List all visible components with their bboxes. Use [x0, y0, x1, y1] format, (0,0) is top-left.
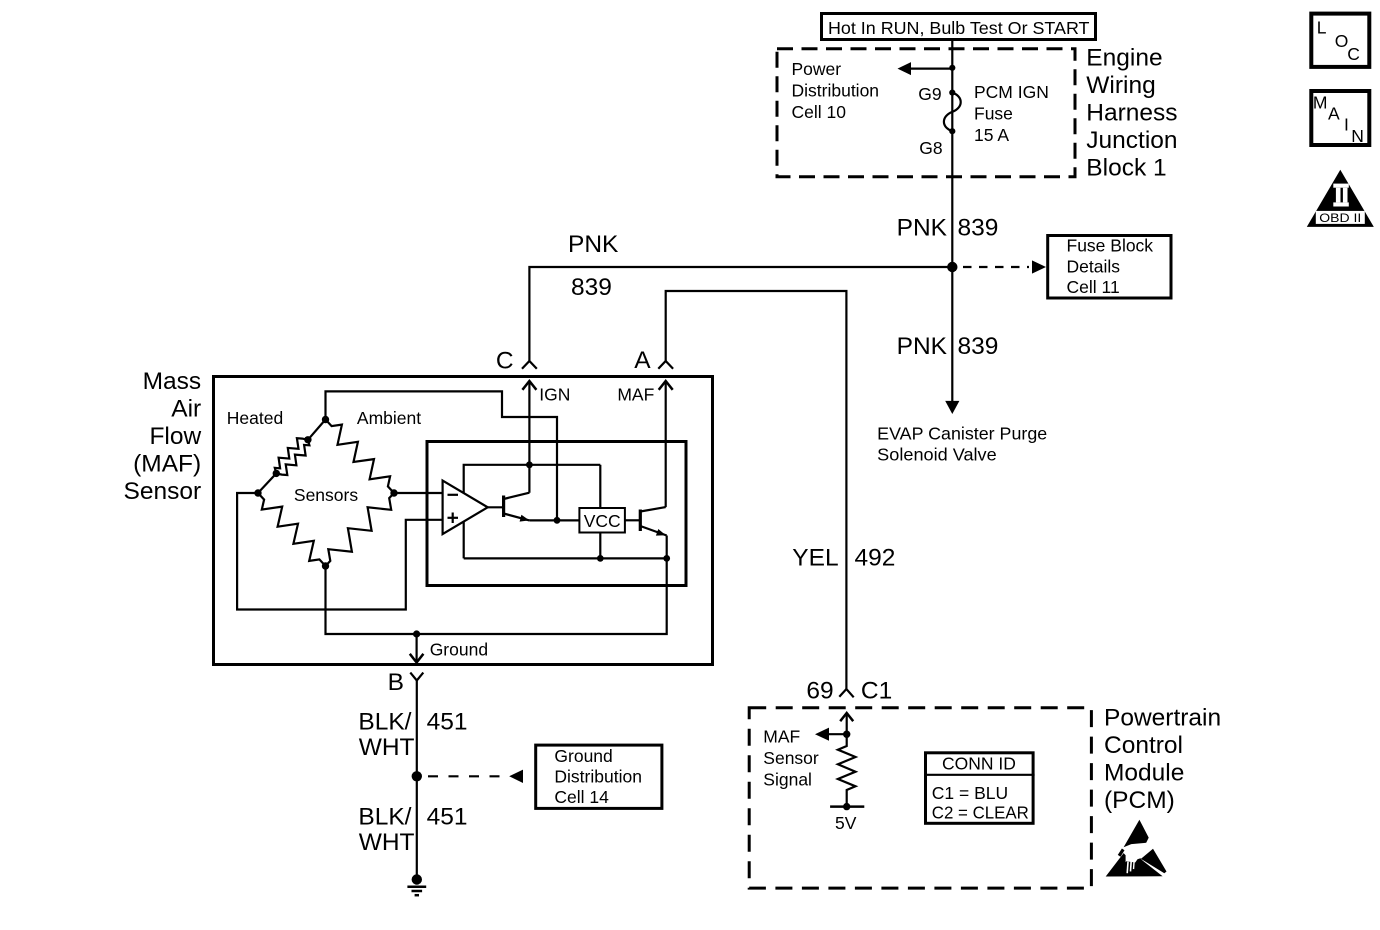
svg-text:5V: 5V: [835, 813, 857, 833]
op-amp U1 (comparator triangle): [443, 481, 488, 534]
svg-text:Signal: Signal: [763, 770, 812, 790]
svg-text:Sensor: Sensor: [763, 748, 819, 768]
wire: bridge bottom node to ground rail: [326, 558, 667, 634]
node: bridge left node dot: [254, 489, 261, 496]
svg-text:PNK: PNK: [897, 215, 948, 242]
svg-text:Block 1: Block 1: [1086, 155, 1166, 182]
svg-text:G8: G8: [919, 138, 942, 158]
svg-text:Wiring: Wiring: [1086, 72, 1155, 99]
svg-text:Fuse: Fuse: [974, 104, 1013, 124]
wire: ground arrow to pin B: [410, 634, 424, 663]
svg-text:Control: Control: [1104, 732, 1183, 759]
svg-text:N: N: [1351, 126, 1364, 146]
node: 5V supply terminal: [830, 803, 864, 833]
node: ESD sensitivity symbol: [1106, 820, 1167, 877]
node: EVAP Canister Purge Solenoid Valve label: [877, 424, 1047, 465]
node: Ground Distribution Cell 14 box: [536, 745, 662, 808]
transistor Q1 (NPN, heater drive): [488, 493, 580, 522]
svg-text:839: 839: [958, 215, 999, 242]
wire: PNK 839 down to EVAP Canister Purge Solenoid Valve (arrow): [945, 267, 959, 414]
svg-text:(MAF): (MAF): [133, 450, 201, 477]
svg-text:IGN: IGN: [539, 385, 570, 405]
svg-text:69: 69: [806, 678, 833, 705]
wire: bridge left node loop to op-amp non-inverting input: [237, 493, 443, 610]
svg-text:C1 = BLU: C1 = BLU: [932, 783, 1008, 803]
node: CONN ID table: [924, 753, 1035, 824]
svg-text:Distribution: Distribution: [792, 80, 880, 100]
svg-text:C2 = CLEAR: C2 = CLEAR: [932, 802, 1029, 822]
wire: VCC regulator to bottom rail: [599, 533, 601, 559]
svg-text:Distribution: Distribution: [554, 767, 642, 787]
wire: supply loop top rail and left side: [464, 465, 601, 559]
svg-text:Sensor: Sensor: [124, 478, 202, 505]
svg-text:WHT: WHT: [359, 734, 415, 761]
wire: bridge right node to op-amp inverting input: [394, 492, 443, 494]
svg-text:15 A: 15 A: [974, 125, 1009, 145]
node: PCM IGN Fuse 15 A label: [974, 82, 1049, 145]
resistor: heated sensor (double zigzag) top-left bridge arm: [258, 420, 326, 494]
svg-text:Cell 14: Cell 14: [554, 787, 609, 807]
transistor Q2 (NPN, output): [625, 507, 667, 558]
node: LOC reference box: [1311, 14, 1369, 67]
junction block 1 dashed box (Power Distribution Cell 10): [777, 49, 1075, 177]
wire: bridge top node to regulator input: [326, 391, 558, 520]
svg-text:CONN ID: CONN ID: [942, 754, 1016, 774]
svg-text:(PCM): (PCM): [1104, 787, 1175, 814]
svg-text:Engine: Engine: [1086, 45, 1162, 72]
svg-text:EVAP Canister Purge: EVAP Canister Purge: [877, 424, 1047, 444]
junction dot: ground distribution splice: [412, 771, 422, 781]
svg-text:VCC: VCC: [584, 511, 621, 531]
svg-text:C1: C1: [861, 678, 892, 705]
svg-text:I: I: [1344, 114, 1349, 134]
junction dot: IGN to supply rail: [526, 461, 533, 468]
connector A (MAF sensor pin A): [634, 347, 673, 374]
svg-text:Harness: Harness: [1086, 100, 1177, 127]
svg-text:L: L: [1317, 18, 1327, 38]
node: Hot In RUN, Bulb Test Or START power label box: [822, 14, 1096, 40]
svg-text:PNK: PNK: [568, 231, 619, 258]
junction dot: regulator input on emitter wire: [554, 517, 561, 524]
svg-text:Details: Details: [1067, 257, 1121, 277]
wire: IGN feed into sensor (arrow up to pin C): [522, 381, 570, 493]
svg-text:Hot In RUN, Bulb Test Or START: Hot In RUN, Bulb Test Or START: [828, 18, 1090, 38]
connector C (MAF sensor pin C): [496, 348, 537, 375]
svg-text:G9: G9: [918, 84, 941, 104]
svg-text:Ambient: Ambient: [357, 408, 421, 428]
svg-text:Air: Air: [171, 396, 201, 423]
svg-text:A: A: [634, 347, 651, 374]
resistor: bottom-right bridge arm zigzag: [326, 493, 395, 566]
wire: MAF signal into PCM (arrow up): [840, 713, 853, 734]
svg-text:OBD II: OBD II: [1319, 213, 1361, 225]
svg-text:Module: Module: [1104, 760, 1184, 787]
svg-text:Powertrain: Powertrain: [1104, 705, 1221, 732]
svg-text:BLK/: BLK/: [358, 804, 411, 831]
resistor: PCM pull-up to 5V: [838, 734, 856, 806]
svg-text:Fuse Block: Fuse Block: [1067, 236, 1154, 256]
node: OBD II symbol: [1307, 170, 1374, 227]
svg-text:451: 451: [427, 709, 468, 736]
wire label PNK 839 (above junction): [897, 215, 999, 242]
svg-text:PNK: PNK: [897, 333, 948, 360]
junction dot: PNK 839 splice: [947, 262, 957, 272]
svg-text:Junction: Junction: [1086, 127, 1177, 154]
wire label PNK 839 (below junction): [897, 333, 999, 360]
wire label YEL 492: [792, 545, 895, 572]
node: Power Distribution Cell 10 label: [792, 59, 880, 122]
svg-text:Heated: Heated: [227, 408, 283, 428]
wire: PNK 839 horizontal to MAF sensor C terminal: [529, 267, 952, 361]
svg-text:MAF: MAF: [763, 727, 800, 747]
svg-text:Flow: Flow: [149, 423, 201, 450]
junction dot: ground tap: [413, 630, 420, 637]
regulator U2 VCC box: [579, 508, 625, 533]
svg-text:Solenoid Valve: Solenoid Valve: [877, 444, 997, 464]
svg-text:839: 839: [571, 274, 612, 301]
wire: dashed reference arrow to Ground Distribution: [428, 770, 523, 783]
svg-text:839: 839: [958, 333, 999, 360]
wire: arrow to MAF Sensor Signal: [815, 728, 847, 741]
junction dot: Q2 emitter to bottom rail: [663, 555, 670, 562]
svg-text:Cell 10: Cell 10: [792, 102, 847, 122]
junction dot at power distribution tap: [949, 65, 955, 71]
node G9 terminal dot: [949, 90, 955, 96]
resistor: ambient sensor zigzag top-right bridge arm: [326, 420, 395, 494]
svg-text:PCM IGN: PCM IGN: [974, 82, 1049, 102]
node: bridge top node dot: [322, 416, 329, 423]
wire: emitter/output bottom rail: [464, 557, 667, 559]
connector B (MAF sensor pin B): [388, 669, 424, 696]
svg-text:C: C: [496, 348, 514, 375]
junction dot: VCC to bottom rail: [597, 555, 604, 562]
wire label BLK/WHT 451 (lower): [358, 804, 467, 856]
wire label PNK 839 (left branch): [568, 231, 619, 301]
svg-text:Cell 11: Cell 11: [1067, 277, 1120, 297]
node: Powertrain Control Module (PCM) label: [1104, 705, 1221, 815]
junction dot: MAF sensor signal node: [843, 731, 850, 738]
svg-text:MAF: MAF: [617, 385, 654, 405]
svg-text:B: B: [388, 669, 404, 696]
svg-text:A: A: [1328, 103, 1340, 123]
wire: MAF signal from pin A up and over to PCM (YEL 492): [666, 291, 847, 689]
svg-text:492: 492: [855, 545, 896, 572]
svg-text:Sensors: Sensors: [294, 485, 358, 505]
node: bridge right node dot: [390, 489, 397, 496]
svg-text:YEL: YEL: [792, 545, 838, 572]
wire: battery feed from Hot box down to junction dot at PNK 839: [951, 40, 953, 268]
svg-text:Ground: Ground: [554, 746, 612, 766]
node: Fuse Block Details Cell 11 box: [1048, 236, 1171, 299]
connector 69 C1 (PCM pin 69): [806, 678, 892, 705]
node: Mass Air Flow (MAF) Sensor label: [124, 368, 202, 505]
svg-text:WHT: WHT: [359, 829, 415, 856]
svg-text:Power: Power: [792, 59, 842, 79]
node G8 terminal dot: [949, 128, 955, 134]
wire: MAF signal out of sensor (arrow up to pin A): [617, 381, 672, 507]
wire: arrow to Power Distribution Cell 10: [898, 62, 953, 75]
amplifier hybrid circuit box: [427, 442, 686, 586]
ground symbol G101: [407, 874, 426, 895]
svg-text:C: C: [1347, 44, 1360, 64]
wire: VCC regulator feed from top rail: [599, 465, 601, 508]
svg-text:M: M: [1313, 92, 1328, 112]
wire label BLK/WHT 451 (upper): [358, 709, 467, 761]
resistor: bottom-left bridge arm zigzag: [258, 493, 326, 566]
node: MAIN reference box: [1311, 91, 1369, 146]
wire: BLK/WHT 451 from pin B to splice: [416, 681, 418, 880]
svg-text:BLK/: BLK/: [358, 709, 411, 736]
wire: dashed reference arrow to Fuse Block Details: [963, 260, 1046, 273]
node: MAF Sensor Signal label: [763, 727, 819, 790]
svg-text:451: 451: [427, 804, 468, 831]
PCM dashed box: [749, 708, 1091, 888]
node: Engine Wiring Harness Junction Block 1 label: [1086, 45, 1177, 182]
MAF sensor box: [214, 377, 713, 665]
node: bridge bottom node dot: [322, 562, 329, 569]
svg-text:Mass: Mass: [143, 368, 202, 395]
svg-text:Ground: Ground: [430, 640, 488, 660]
fuse: PCM IGN Fuse 15 A (S-curve symbol): [944, 93, 961, 132]
